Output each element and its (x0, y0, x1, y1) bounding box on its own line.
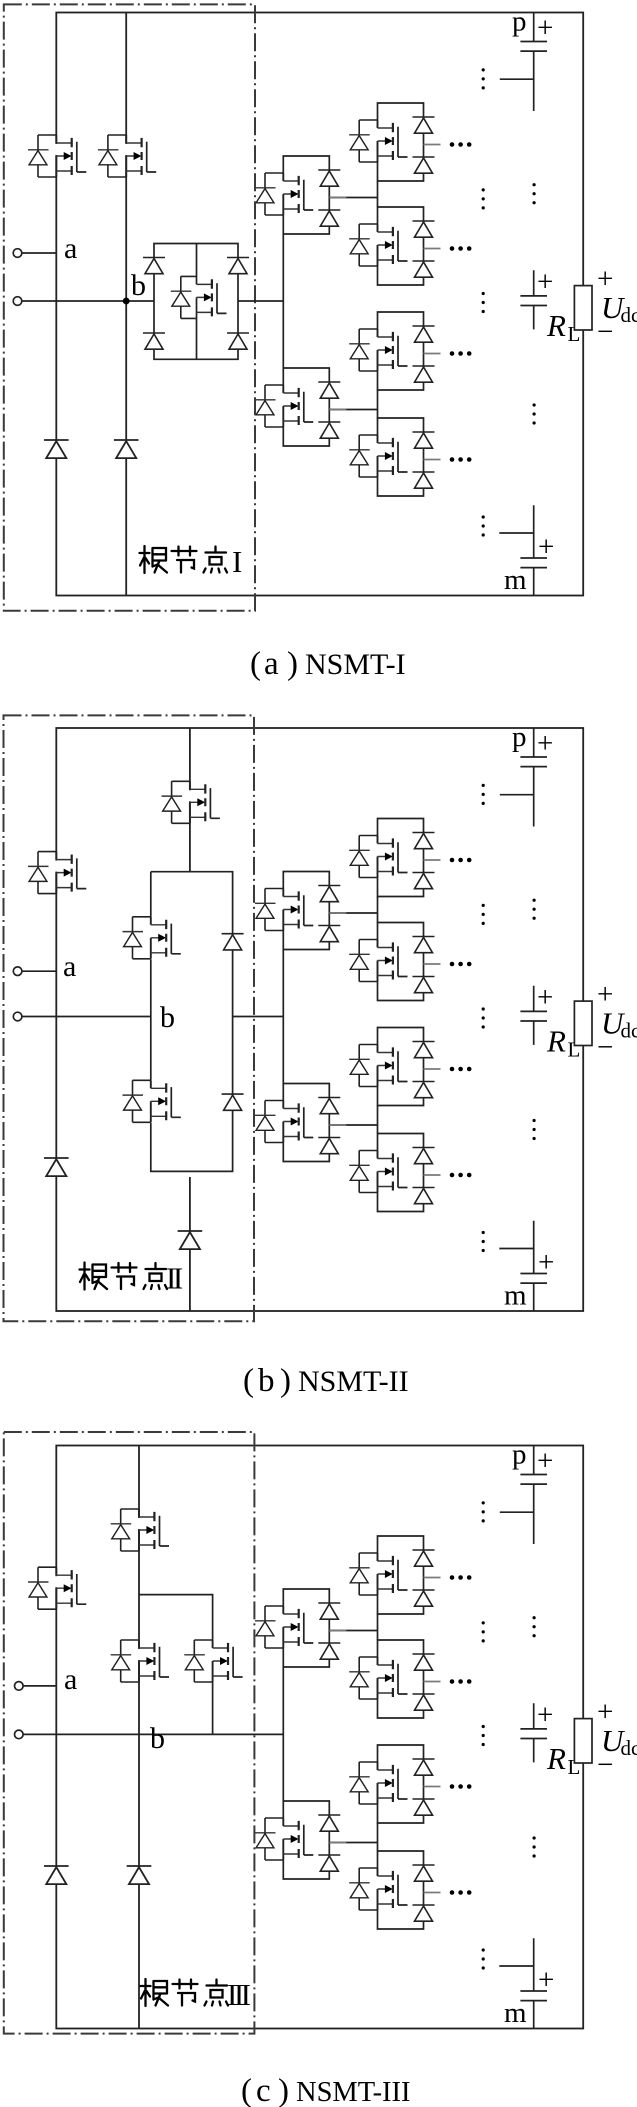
svg-text:b: b (150, 1722, 165, 1755)
svg-text:a: a (64, 1663, 77, 1696)
svg-text:I: I (232, 544, 242, 579)
svg-text:b: b (131, 269, 146, 302)
svg-text:a: a (63, 950, 76, 983)
svg-text:a: a (64, 232, 77, 265)
svg-text:III: III (227, 1977, 251, 2012)
svg-text:(a)NSMT-I: (a)NSMT-I (250, 646, 406, 682)
svg-text:b: b (160, 1001, 175, 1034)
svg-text:(c)NSMT-III: (c)NSMT-III (241, 2073, 411, 2107)
svg-text:II: II (166, 1261, 183, 1296)
svg-text:(b)NSMT-II: (b)NSMT-II (243, 1363, 409, 1399)
